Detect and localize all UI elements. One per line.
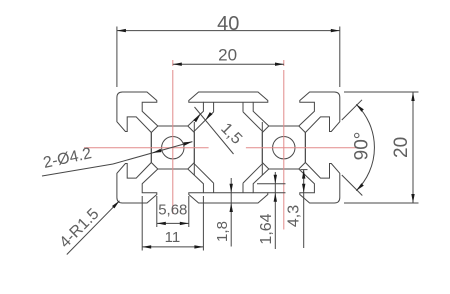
web bottom-left diagonal <box>194 164 213 183</box>
callout 4-R1.5 leader <box>67 201 120 255</box>
dim 1,8 line <box>230 178 232 247</box>
dim 1,8 upper arrow <box>230 184 233 193</box>
dim 20 height line <box>412 92 414 203</box>
dim 20 height bottom extension <box>344 202 419 204</box>
dim 5,68 left arrow <box>157 222 166 225</box>
dim 1,8 lower arrow <box>230 203 233 212</box>
dim 90 lower extension <box>342 175 363 196</box>
dim 4,3 line <box>303 170 305 248</box>
dim 1,5 line <box>195 107 234 154</box>
hole left (Ø4.2) <box>162 137 184 159</box>
dim 90 bottom arrow <box>356 183 364 191</box>
svg-text:20: 20 <box>218 46 237 65</box>
dim 5,68 right extension <box>188 196 190 227</box>
dim 4,3 upper extension <box>300 169 307 171</box>
left hole centerline <box>172 60 174 214</box>
svg-text:5,68: 5,68 <box>158 201 187 218</box>
svg-text:1,8: 1,8 <box>214 221 231 242</box>
web top-right diagonal <box>243 112 262 131</box>
dim 40 left arrow <box>117 29 126 32</box>
web junction leg bottom-right <box>242 183 244 193</box>
dim 1,5 upper arrow <box>193 114 200 122</box>
web bottom-right diagonal <box>243 164 262 183</box>
dim 1,5 lower arrow <box>205 112 212 120</box>
svg-text:4-R1.5: 4-R1.5 <box>57 205 103 251</box>
web junction leg bottom-left <box>213 183 215 193</box>
left screw boss <box>151 126 194 169</box>
hole right (Ø4.2) <box>273 137 295 159</box>
dim 1,64 line <box>274 172 276 249</box>
callout 2-Ø4.2 inner arrow <box>152 149 161 153</box>
dim 90 arc <box>356 104 374 190</box>
svg-text:1,64: 1,64 <box>258 213 275 244</box>
callout 2-Ø4.2 outer arrow <box>183 142 192 146</box>
aluminum extrusion profile outline with V-slots <box>117 92 340 203</box>
callout 4-R1.5 arrow <box>112 201 120 209</box>
web top-left diagonal <box>194 112 213 131</box>
right screw boss <box>262 126 305 169</box>
dim 11 left extension <box>141 196 143 251</box>
dim 40 line <box>117 30 340 32</box>
dim 40 right arrow <box>331 29 340 32</box>
central cavity left wall <box>193 122 195 175</box>
svg-text:90°: 90° <box>351 132 372 161</box>
dim 20 height top extension <box>344 91 419 93</box>
dim 11 right arrow <box>194 245 203 248</box>
horizontal centerline left part <box>84 147 209 149</box>
svg-text:20: 20 <box>391 137 412 158</box>
dim 1,64 upper extension <box>257 183 286 185</box>
dim 11 line <box>142 246 203 248</box>
dim 20 right arrow <box>275 63 284 66</box>
right hole centerline <box>283 60 285 230</box>
dim 20 line <box>173 63 284 65</box>
svg-text:4,3: 4,3 <box>285 205 302 227</box>
dim 5,68 left extension <box>156 196 158 227</box>
dim 20 height top arrow <box>411 92 414 101</box>
dim 40 left extension <box>116 27 118 88</box>
dim 11 right extension <box>202 196 204 251</box>
dim 40 right extension <box>339 27 341 88</box>
callout 2-Ø4.2 underline <box>42 164 113 176</box>
central cavity ceiling <box>203 101 253 103</box>
central cavity floor <box>203 192 253 194</box>
dim 1,64 lower arrow <box>274 193 277 202</box>
web junction leg top-left <box>213 102 215 112</box>
dim 90 upper extension <box>342 100 362 120</box>
web junction leg top-right <box>242 102 244 112</box>
svg-text:40: 40 <box>217 13 239 35</box>
dim 1,64 upper arrow <box>274 175 277 184</box>
dim 5,68 line <box>157 222 189 224</box>
dim 90 top arrow <box>356 104 364 112</box>
dim 11 left arrow <box>142 245 151 248</box>
dim 4,3 lower arrow <box>302 184 305 193</box>
dim 20 height bottom arrow <box>411 194 414 203</box>
central cavity right wall <box>261 122 263 175</box>
svg-text:1,5: 1,5 <box>217 120 245 148</box>
dim 1,64 lower extension <box>268 192 286 194</box>
svg-text:11: 11 <box>165 229 181 246</box>
dim 20 left arrow <box>173 63 182 66</box>
dim 4,3 upper arrow <box>302 170 305 179</box>
svg-text:2-Ø4.2: 2-Ø4.2 <box>42 145 93 172</box>
dim 5,68 right arrow <box>180 222 189 225</box>
callout 2-Ø4.2 leader <box>113 142 192 164</box>
horizontal centerline right part <box>246 147 358 149</box>
